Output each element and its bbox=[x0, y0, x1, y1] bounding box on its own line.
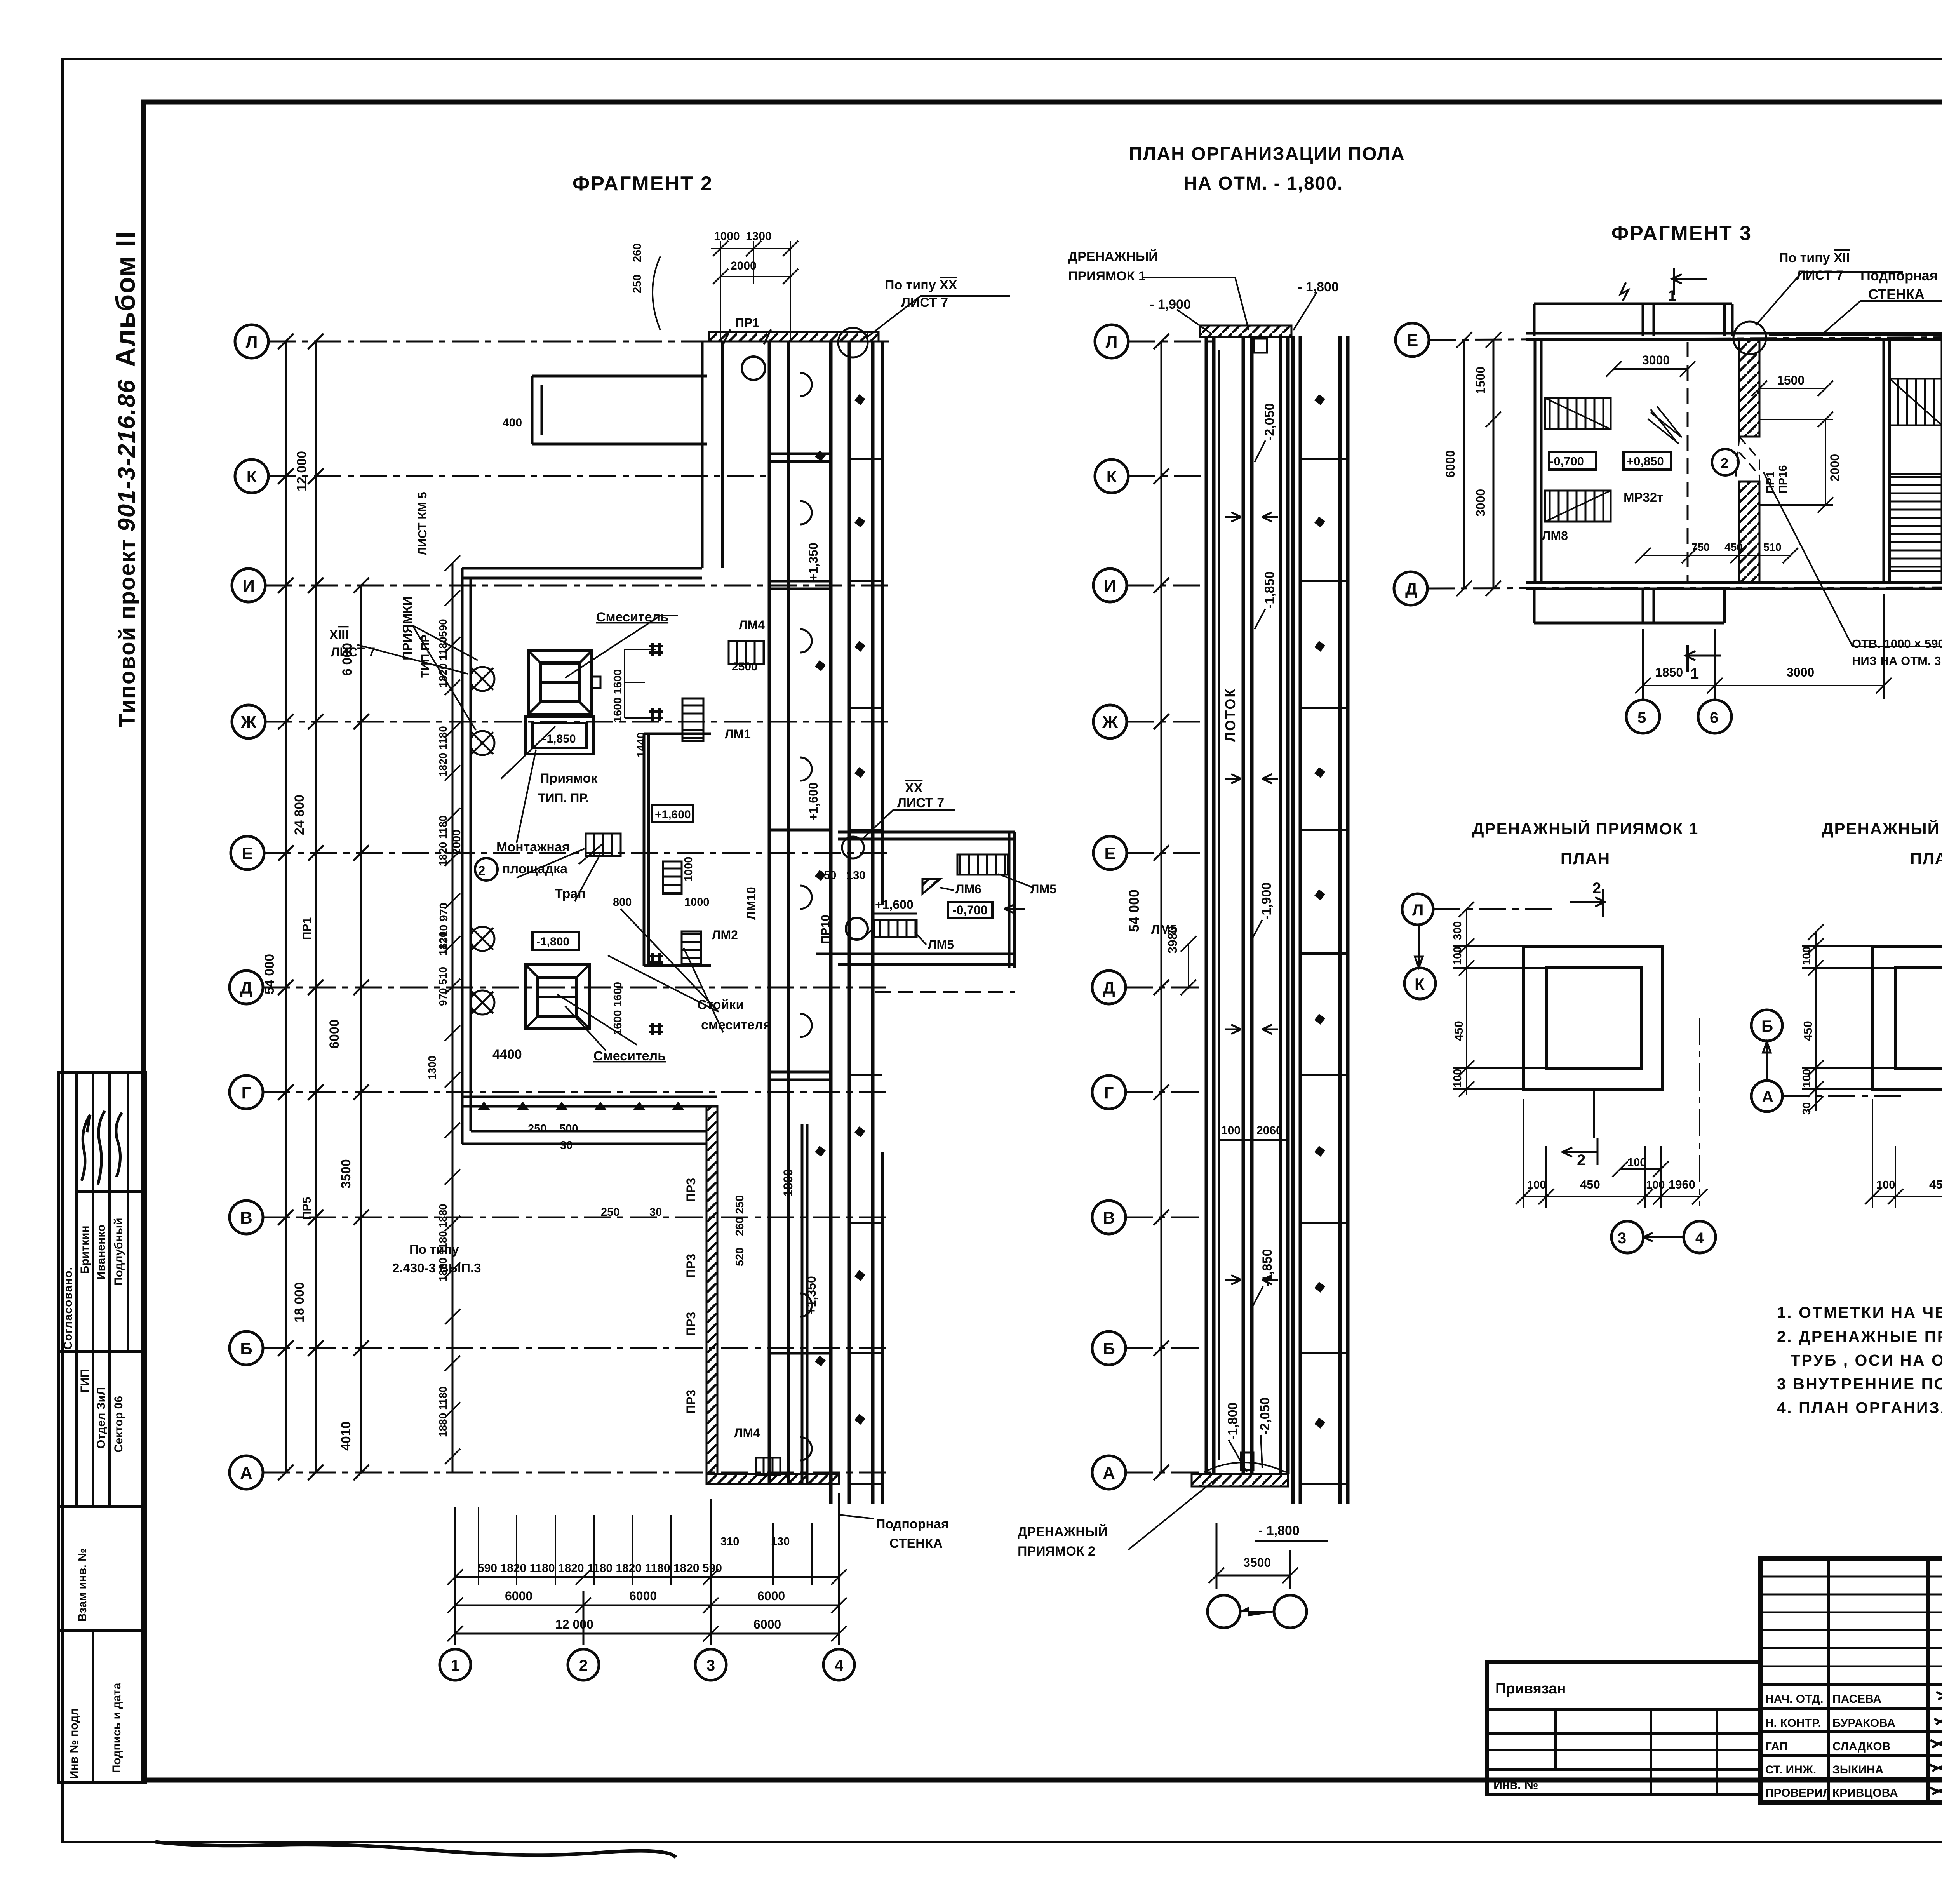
svg-text:1000: 1000 bbox=[714, 230, 740, 243]
svg-text:Приямок: Приямок bbox=[540, 771, 598, 786]
svg-text:1880 1180: 1880 1180 bbox=[437, 1386, 449, 1437]
retaining wall to right bbox=[1769, 334, 1942, 336]
svg-text:+1,600: +1,600 bbox=[655, 808, 691, 821]
svg-text:ПР5: ПР5 bbox=[301, 1197, 313, 1220]
svg-text:Типовой проект 901-3-216.86: Типовой проект 901-3-216.86 bbox=[113, 379, 140, 727]
svg-text:-2,050: -2,050 bbox=[1258, 1398, 1272, 1435]
svg-text:ПЛАН ОРГАНИЗАЦИИ ПОЛА: ПЛАН ОРГАНИЗАЦИИ ПОЛА bbox=[1129, 144, 1405, 164]
svg-text:XX: XX bbox=[905, 781, 923, 795]
svg-text:2: 2 bbox=[478, 863, 486, 878]
axis circles bbox=[1394, 323, 1429, 605]
top hatched wall bbox=[1200, 325, 1291, 337]
svg-text:1820 1180: 1820 1180 bbox=[437, 815, 449, 866]
svg-text:ПРИЯМОК 2: ПРИЯМОК 2 bbox=[1018, 1544, 1095, 1559]
svg-text:ГИП: ГИП bbox=[78, 1369, 91, 1392]
axis dash-dot lines bbox=[263, 341, 889, 1472]
svg-text:Трап: Трап bbox=[555, 886, 586, 901]
axis 2 circle bbox=[1712, 449, 1738, 475]
svg-text:ПР3: ПР3 bbox=[684, 1390, 698, 1414]
svg-text:6: 6 bbox=[1710, 709, 1718, 726]
svg-text:Иваненко: Иваненко bbox=[95, 1225, 108, 1280]
top walls above E bbox=[1534, 304, 1732, 336]
svg-text:Инв. №: Инв. № bbox=[1493, 1778, 1538, 1792]
svg-text:1500: 1500 bbox=[1777, 373, 1805, 387]
central hatched pier bbox=[1739, 339, 1759, 437]
bottom hatched wall bbox=[706, 1474, 839, 1484]
svg-text:ГАП: ГАП bbox=[1765, 1740, 1788, 1753]
svg-text:Н. КОНТР.: Н. КОНТР. bbox=[1765, 1717, 1821, 1730]
svg-text:ЛМ5: ЛМ5 bbox=[1030, 882, 1056, 896]
axis line from L bbox=[1433, 908, 1554, 910]
svg-text:450: 450 bbox=[1801, 1021, 1815, 1041]
second lower wall bbox=[462, 1097, 717, 1110]
svg-text:1500: 1500 bbox=[1474, 367, 1488, 394]
svg-text:6000: 6000 bbox=[753, 1617, 781, 1631]
fragment 2 labels bbox=[301, 230, 1177, 1631]
bottom dims bbox=[1865, 1099, 1942, 1208]
svg-text:Смеситель: Смеситель bbox=[596, 610, 668, 625]
svg-text:1: 1 bbox=[451, 1657, 459, 1674]
svg-text:Привязан: Привязан bbox=[1495, 1681, 1566, 1697]
svg-text:ПР3: ПР3 bbox=[684, 1254, 698, 1278]
svg-text:250: 250 bbox=[528, 1123, 546, 1135]
svg-text:1850: 1850 bbox=[1655, 665, 1683, 679]
svg-text:4: 4 bbox=[835, 1657, 844, 1674]
svg-text:6000: 6000 bbox=[505, 1589, 532, 1603]
bottom dim 1850 3000 bbox=[1643, 685, 1884, 686]
svg-text:-1,800: -1,800 bbox=[536, 935, 569, 948]
svg-text:3500: 3500 bbox=[1243, 1556, 1271, 1570]
svg-text:ДРЕНАЖНЫЙ: ДРЕНАЖНЫЙ bbox=[1018, 1524, 1108, 1539]
svg-text:К: К bbox=[1415, 975, 1425, 993]
svg-text:-1,900: -1,900 bbox=[1259, 882, 1274, 920]
svg-text:Согласовано.: Согласовано. bbox=[62, 1267, 75, 1350]
svg-text:Е: Е bbox=[242, 844, 253, 863]
svg-text:ПР1: ПР1 bbox=[301, 917, 313, 940]
leaders bbox=[357, 296, 1010, 1051]
left wall bbox=[1535, 339, 1541, 583]
svg-text:ЛИСТ 7: ЛИСТ 7 bbox=[1796, 268, 1843, 283]
svg-text:ФРАГМЕНТ 3: ФРАГМЕНТ 3 bbox=[1611, 222, 1752, 245]
svg-text:Б: Б bbox=[240, 1339, 252, 1358]
leader bottom left bbox=[1128, 1476, 1220, 1550]
svg-text:2: 2 bbox=[579, 1657, 588, 1674]
dim 2000 vertical bbox=[1825, 419, 1826, 505]
svg-text:смесителя: смесителя bbox=[701, 1018, 771, 1032]
top hatched wall bbox=[709, 332, 879, 341]
axis 2 circle top bbox=[742, 357, 765, 380]
svg-text:4400: 4400 bbox=[492, 1047, 522, 1062]
svg-text:-0,700: -0,700 bbox=[1550, 454, 1584, 468]
vertical wall lines bbox=[1206, 336, 1348, 1504]
svg-text:6000: 6000 bbox=[629, 1589, 657, 1603]
svg-text:Инв № подл: Инв № подл bbox=[68, 1708, 80, 1779]
svg-text:3: 3 bbox=[706, 1657, 715, 1674]
svg-text:ПРОВЕРИЛ: ПРОВЕРИЛ bbox=[1765, 1787, 1831, 1800]
svg-text:+1,600: +1,600 bbox=[875, 898, 914, 912]
svg-text:2000: 2000 bbox=[451, 829, 463, 855]
svg-text:ПР3: ПР3 bbox=[684, 1312, 698, 1336]
svg-text:310: 310 bbox=[720, 1535, 739, 1548]
svg-text:ПРИЯМОК 1: ПРИЯМОК 1 bbox=[1068, 269, 1146, 284]
svg-text:В: В bbox=[1103, 1208, 1115, 1227]
svg-text:Монтажная: Монтажная bbox=[496, 840, 570, 855]
svg-text:6000: 6000 bbox=[327, 1019, 342, 1049]
dashed cut line vertical bbox=[1687, 342, 1689, 581]
svg-text:450: 450 bbox=[1580, 1178, 1600, 1191]
svg-text:ПР1: ПР1 bbox=[1765, 472, 1777, 493]
svg-text:Л: Л bbox=[246, 332, 258, 352]
right inner walls bbox=[1884, 339, 1942, 583]
svg-text:750: 750 bbox=[1691, 541, 1710, 553]
svg-text:100: 100 bbox=[1801, 1069, 1813, 1088]
long stair right bbox=[1890, 474, 1942, 571]
svg-text:3 ВНУТРЕННИЕ ПОВЕРХНОСТИ С: 3 ВНУТРЕННИЕ ПОВЕРХНОСТИ СТЕН И ДНА ЛОТК… bbox=[1777, 1375, 1942, 1393]
dims 750 450 510 bbox=[1643, 555, 1791, 556]
svg-text:2. ДРЕНАЖНЫЕ ПРИЯМКИ 1 и 2: 2. ДРЕНАЖНЫЕ ПРИЯМКИ 1 и 2 ВЫПОЛНЯТЬ ПОС… bbox=[1777, 1328, 1942, 1345]
left wing top wall bbox=[462, 567, 702, 570]
svg-text:ПЛАН: ПЛАН bbox=[1561, 849, 1610, 868]
svg-text:ЛИСТ 7: ЛИСТ 7 bbox=[897, 795, 944, 810]
svg-text:1: 1 bbox=[1668, 287, 1676, 305]
svg-text:54 000: 54 000 bbox=[1126, 889, 1142, 932]
svg-text:ЛИСТ 7: ЛИСТ 7 bbox=[901, 295, 948, 310]
svg-text:А: А bbox=[1103, 1464, 1115, 1483]
wing inner walls bbox=[643, 734, 646, 966]
upper-left wall from top wall down bbox=[462, 341, 722, 1144]
svg-text:520: 520 bbox=[734, 1248, 746, 1266]
svg-text:2: 2 bbox=[1577, 1152, 1585, 1169]
svg-text:Б: Б bbox=[1761, 1017, 1773, 1035]
svg-text:площадка: площадка bbox=[502, 861, 568, 876]
svg-text:Л: Л bbox=[1106, 332, 1118, 352]
гип table bbox=[58, 1352, 146, 1507]
svg-text:ЛИСТ КМ 5: ЛИСТ КМ 5 bbox=[416, 492, 429, 555]
smesitel square 2 bbox=[526, 965, 589, 1029]
svg-text:Г: Г bbox=[242, 1083, 251, 1102]
vertical dimension lines bbox=[286, 341, 452, 1472]
wing left wall bbox=[461, 568, 464, 1144]
svg-text:100: 100 bbox=[1646, 1179, 1665, 1191]
TITLE BLOCK bbox=[1760, 1559, 1942, 1802]
left stamp column bbox=[58, 1073, 146, 1783]
axis 10 circle bbox=[846, 918, 868, 940]
svg-text:5: 5 bbox=[1637, 709, 1646, 726]
svg-text:+1,350: +1,350 bbox=[806, 543, 820, 581]
svg-text:Л: Л bbox=[1412, 901, 1423, 919]
detail circle XX mid bbox=[842, 837, 864, 858]
подпись и дата box bbox=[58, 1631, 146, 1783]
svg-text:По типу XII: По типу XII bbox=[1779, 251, 1850, 265]
svg-text:130: 130 bbox=[847, 869, 865, 882]
svg-text:ФРАГМЕНТ 2: ФРАГМЕНТ 2 bbox=[573, 172, 713, 195]
svg-text:-2,050: -2,050 bbox=[1262, 403, 1277, 440]
svg-text:1300: 1300 bbox=[746, 230, 772, 243]
svg-text:+1,600: +1,600 bbox=[806, 782, 820, 821]
svg-text:1310 970: 1310 970 bbox=[438, 903, 450, 950]
svg-text:6000: 6000 bbox=[1443, 450, 1457, 478]
svg-text:XIII: XIII bbox=[329, 627, 349, 642]
svg-text:100: 100 bbox=[1627, 1156, 1646, 1169]
svg-text:Подпись и дата: Подпись и дата bbox=[110, 1683, 123, 1773]
svg-text:К: К bbox=[247, 467, 257, 486]
svg-text:ДРЕНАЖНЫЙ: ДРЕНАЖНЫЙ bbox=[1068, 249, 1158, 264]
signature squiggles bbox=[82, 1115, 90, 1181]
svg-text:Сектор 06: Сектор 06 bbox=[112, 1396, 125, 1453]
svg-text:3500: 3500 bbox=[339, 1159, 353, 1189]
svg-text:ЛМ10: ЛМ10 bbox=[744, 887, 758, 920]
svg-text:1820 1180: 1820 1180 bbox=[437, 726, 449, 777]
section mark 1 top bbox=[1672, 268, 1707, 295]
cross-hatch symbol bbox=[1648, 406, 1682, 444]
svg-text:Д: Д bbox=[1405, 580, 1417, 599]
svg-text:Д: Д bbox=[240, 978, 252, 997]
svg-text:ЛИСТ 7: ЛИСТ 7 bbox=[331, 645, 375, 659]
svg-text:КРИВЦОВА: КРИВЦОВА bbox=[1832, 1787, 1898, 1800]
svg-text:260: 260 bbox=[631, 244, 644, 262]
svg-text:Подпорная: Подпорная bbox=[1860, 268, 1938, 284]
stairs right top bbox=[1890, 379, 1942, 425]
dim 3000 top bbox=[1614, 368, 1688, 370]
svg-text:100: 100 bbox=[1527, 1179, 1546, 1191]
svg-text:Взам инв. №: Взам инв. № bbox=[76, 1548, 89, 1622]
leaders top bbox=[1142, 277, 1317, 1472]
svg-text:100: 100 bbox=[1876, 1179, 1895, 1191]
svg-text:Ж: Ж bbox=[1102, 713, 1118, 732]
wing bottom wall bbox=[462, 1143, 706, 1145]
svg-text:СТ. ИНЖ.: СТ. ИНЖ. bbox=[1765, 1763, 1816, 1776]
svg-text:Альбом II: Альбом II bbox=[110, 231, 141, 367]
section mark 1 bottom bbox=[1686, 645, 1721, 672]
svg-text:Бриткин: Бриткин bbox=[78, 1225, 91, 1274]
svg-text:+0,850: +0,850 bbox=[1627, 454, 1664, 468]
svg-text:24 800: 24 800 bbox=[292, 795, 307, 835]
взам инв box bbox=[58, 1507, 146, 1631]
svg-text:250: 250 bbox=[631, 275, 644, 293]
NOTES bbox=[1777, 1304, 1942, 1417]
+1,600 box in wing bbox=[652, 805, 693, 822]
smesitel square 1 bbox=[528, 651, 600, 714]
corridor partitions bbox=[769, 454, 831, 1353]
svg-text:ЛМ2: ЛМ2 bbox=[712, 928, 738, 942]
svg-text:100: 100 bbox=[1221, 1124, 1241, 1137]
svg-text:1000: 1000 bbox=[682, 856, 695, 882]
svg-text:3980: 3980 bbox=[1166, 926, 1180, 954]
cell diamonds central bbox=[1314, 394, 1325, 1429]
svg-text:Д: Д bbox=[1103, 978, 1115, 997]
svg-text:260 250: 260 250 bbox=[734, 1195, 746, 1236]
svg-text:СЛАДКОВ: СЛАДКОВ bbox=[1832, 1740, 1890, 1753]
svg-text:450: 450 bbox=[1929, 1178, 1942, 1191]
svg-text:По типу XX: По типу XX bbox=[885, 278, 957, 292]
svg-text:По типу: По типу bbox=[409, 1242, 459, 1257]
stairs bbox=[586, 641, 780, 1475]
svg-text:Подлубный: Подлубный bbox=[112, 1218, 125, 1286]
svg-text:590: 590 bbox=[437, 619, 449, 637]
svg-text:30: 30 bbox=[560, 1139, 573, 1152]
svg-text:1000: 1000 bbox=[684, 896, 710, 908]
svg-text:450: 450 bbox=[1724, 541, 1743, 553]
axis circles 5 6 bbox=[1626, 700, 1660, 733]
HEADINGS bbox=[573, 144, 1942, 868]
corridor double walls full height bbox=[769, 341, 882, 1504]
svg-text:Отдел ЗиЛ: Отдел ЗиЛ bbox=[95, 1387, 108, 1449]
svg-text:4. ПЛАН ОРГАНИЗАЦИИ ПОЛА В: 4. ПЛАН ОРГАНИЗАЦИИ ПОЛА В ПОМЕЩЕНИИ СМЕ… bbox=[1777, 1399, 1942, 1417]
svg-text:-1,850: -1,850 bbox=[543, 733, 576, 745]
svg-text:- 1,900: - 1,900 bbox=[1150, 297, 1191, 312]
left dims bbox=[1456, 332, 1501, 596]
svg-text:1. ОТМЕТКИ НА ЧЕРТЕЖАХ ДА: 1. ОТМЕТКИ НА ЧЕРТЕЖАХ ДАНЫ УСЛОВНЫЕ. bbox=[1777, 1304, 1942, 1321]
svg-text:800: 800 bbox=[613, 896, 632, 908]
box -1,800 above smesitel2 bbox=[532, 932, 579, 950]
svg-text:300: 300 bbox=[1451, 921, 1464, 940]
svg-text:НИЗ НА ОТМ. 3,510: НИЗ НА ОТМ. 3,510 bbox=[1852, 654, 1942, 668]
axis 2 circle on wing wall bbox=[475, 858, 498, 881]
svg-text:-1,800: -1,800 bbox=[1225, 1403, 1240, 1440]
согласовано table bbox=[58, 1073, 146, 1352]
dim 1500 bbox=[1759, 388, 1825, 389]
svg-text:500: 500 bbox=[559, 1123, 578, 1135]
leaders bbox=[1756, 272, 1942, 647]
svg-text:Ж: Ж bbox=[240, 713, 256, 732]
bottom flare detail bbox=[1204, 1462, 1286, 1472]
svg-text:3000: 3000 bbox=[1642, 353, 1670, 367]
thin rows upper-left bbox=[1760, 1576, 1942, 1578]
signatures in title block bbox=[1930, 1691, 1942, 1794]
svg-text:Г: Г bbox=[1104, 1083, 1114, 1102]
axis circles column bbox=[230, 325, 268, 1489]
svg-text:3000: 3000 bbox=[1474, 489, 1488, 517]
bottom dims bbox=[1209, 1523, 1298, 1589]
svg-text:2060: 2060 bbox=[1256, 1124, 1282, 1137]
extra corridor line pair lower bbox=[802, 1124, 807, 1484]
svg-text:ЛМ4: ЛМ4 bbox=[739, 618, 765, 632]
svg-text:А: А bbox=[1762, 1088, 1773, 1106]
svg-text:ЛМ1: ЛМ1 bbox=[725, 727, 751, 741]
detail circle on pier top bbox=[1733, 322, 1766, 354]
svg-text:ЛМ5: ЛМ5 bbox=[928, 938, 954, 952]
svg-text:4010: 4010 bbox=[339, 1421, 353, 1451]
svg-text:1960: 1960 bbox=[1669, 1178, 1695, 1191]
svg-text:100: 100 bbox=[1451, 947, 1464, 965]
-0,700 box and +0,850 box bbox=[1549, 452, 1596, 470]
svg-text:БУРАКОВА: БУРАКОВА bbox=[1832, 1717, 1895, 1730]
svg-text:А: А bbox=[240, 1464, 252, 1483]
svg-text:4: 4 bbox=[1695, 1230, 1704, 1247]
svg-text:- 1,800: - 1,800 bbox=[1258, 1523, 1300, 1538]
right room at E-D bbox=[816, 832, 1015, 968]
svg-text:Стойки: Стойки bbox=[697, 997, 744, 1012]
svg-text:250: 250 bbox=[818, 869, 836, 882]
svg-text:130: 130 bbox=[771, 1535, 790, 1548]
svg-text:12 000: 12 000 bbox=[555, 1617, 593, 1631]
bottom dims bbox=[1516, 1099, 1707, 1208]
svg-text:Е: Е bbox=[1104, 844, 1115, 863]
svg-text:970 510: 970 510 bbox=[437, 967, 449, 1006]
svg-text:ТИП. ПР.: ТИП. ПР. bbox=[538, 791, 589, 805]
svg-text:ОТВ. 1000 × 590: ОТВ. 1000 × 590 bbox=[1852, 637, 1942, 651]
svg-text:450: 450 bbox=[1452, 1021, 1465, 1041]
svg-text:Смеситель: Смеситель bbox=[593, 1049, 666, 1063]
svg-text:ПЛАН: ПЛАН bbox=[1910, 849, 1942, 868]
svg-text:2000: 2000 bbox=[731, 259, 757, 272]
svg-text:СТЕНКА: СТЕНКА bbox=[1868, 286, 1925, 302]
svg-text:3: 3 bbox=[1618, 1230, 1626, 1247]
svg-text:2000: 2000 bbox=[1828, 454, 1842, 482]
привязан table bbox=[1487, 1662, 1760, 1794]
axis lines bbox=[1427, 337, 1942, 588]
priyamok box -1,850 bbox=[526, 717, 593, 754]
bottom wall at D bbox=[1526, 583, 1942, 589]
svg-text:12 000: 12 000 bbox=[294, 451, 309, 491]
svg-text:-1,850: -1,850 bbox=[1262, 571, 1277, 609]
svg-text:1600 1600: 1600 1600 bbox=[612, 982, 624, 1035]
svg-text:ЛМ8: ЛМ8 bbox=[1542, 529, 1568, 543]
svg-text:590 1820 1180 1820 1180 1820 1: 590 1820 1180 1820 1180 1820 1180 1820 5… bbox=[478, 1562, 722, 1575]
bottom hatched wall bbox=[1192, 1474, 1288, 1486]
svg-text:3000: 3000 bbox=[1787, 665, 1814, 679]
svg-text:Б: Б bbox=[1103, 1339, 1115, 1358]
svg-text:250: 250 bbox=[601, 1206, 619, 1218]
svg-text:И: И bbox=[242, 576, 255, 595]
stoyki hash symbols bbox=[649, 643, 663, 1035]
svg-text:К: К bbox=[1107, 467, 1117, 486]
svg-text:1600 1600: 1600 1600 bbox=[612, 669, 624, 722]
cell dividers on right wall bbox=[1300, 459, 1348, 1484]
svg-text:ПАСЕВА: ПАСЕВА bbox=[1832, 1693, 1881, 1706]
svg-text:54 000: 54 000 bbox=[262, 954, 277, 994]
svg-text:1: 1 bbox=[1690, 665, 1699, 682]
svg-text:МР32т: МР32т bbox=[1624, 490, 1663, 505]
fragment 2 plan walls bbox=[357, 296, 1033, 1504]
svg-text:И: И bbox=[1104, 576, 1116, 595]
svg-text:2: 2 bbox=[1592, 880, 1601, 897]
svg-text:НА ОТМ. - 1,800.: НА ОТМ. - 1,800. bbox=[1184, 173, 1343, 194]
svg-text:Е: Е bbox=[1407, 331, 1418, 350]
svg-text:18 000: 18 000 bbox=[292, 1282, 307, 1323]
svg-text:1300: 1300 bbox=[426, 1056, 438, 1080]
bottom-left scribble bbox=[155, 1842, 676, 1857]
svg-text:510: 510 bbox=[1763, 541, 1782, 553]
svg-text:ПРИЯМКИ: ПРИЯМКИ bbox=[400, 596, 414, 660]
svg-text:100: 100 bbox=[1801, 947, 1813, 965]
svg-text:ДРЕНАЖНЫЙ ПРИЯМОК 1: ДРЕНАЖНЫЙ ПРИЯМОК 1 bbox=[1472, 819, 1699, 838]
svg-text:2.430-3 ВЫП.3: 2.430-3 ВЫП.3 bbox=[392, 1261, 481, 1275]
svg-text:6000: 6000 bbox=[757, 1589, 785, 1603]
label rows bbox=[1760, 1683, 1942, 1686]
svg-text:-0,700: -0,700 bbox=[952, 903, 988, 917]
inner arrows pairs bbox=[1225, 512, 1278, 1284]
section 2 marks bbox=[1570, 889, 1605, 917]
svg-text:ЛМ6: ЛМ6 bbox=[955, 882, 981, 896]
svg-text:- 1,800: - 1,800 bbox=[1298, 280, 1339, 294]
svg-text:+1,350: +1,350 bbox=[804, 1276, 818, 1314]
svg-text:Подпорная: Подпорная bbox=[876, 1517, 949, 1532]
svg-text:ЗЫКИНА: ЗЫКИНА bbox=[1832, 1763, 1883, 1776]
svg-text:СТЕНКА: СТЕНКА bbox=[889, 1536, 943, 1551]
svg-text:1440: 1440 bbox=[635, 732, 647, 757]
svg-text:30: 30 bbox=[649, 1206, 662, 1218]
svg-text:-1,850: -1,850 bbox=[1260, 1249, 1275, 1286]
fine tick chain on x=1165 bbox=[445, 555, 460, 1464]
walls below D bbox=[1534, 589, 1724, 623]
vertical dividers left part bbox=[1827, 1559, 1830, 1802]
ticks on dim lines at axes bbox=[278, 334, 369, 1480]
svg-text:30: 30 bbox=[1801, 1102, 1813, 1115]
svg-text:400: 400 bbox=[503, 416, 522, 429]
svg-text:ЛОТОК: ЛОТОК bbox=[1222, 688, 1238, 742]
svg-text:ДРЕНАЖНЫЙ ПРИЯМОК 2: ДРЕНАЖНЫЙ ПРИЯМОК 2 bbox=[1822, 819, 1942, 838]
